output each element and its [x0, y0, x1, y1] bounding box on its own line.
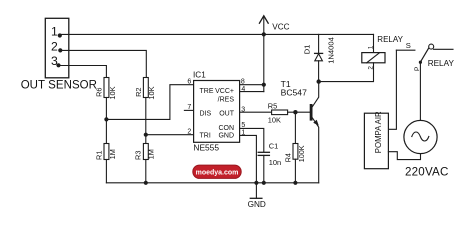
- wire pin8 to VCC column: [240, 84, 264, 86]
- svg-text:1: 1: [51, 24, 58, 38]
- svg-text:BC547: BC547: [281, 88, 307, 98]
- node GND column dot: [254, 181, 258, 185]
- svg-text:TRE: TRE: [200, 88, 214, 95]
- svg-text:3: 3: [241, 106, 245, 113]
- resistor R4 body: [293, 144, 298, 160]
- node R4 top junction: [293, 110, 297, 114]
- capacitor C1 plates: [258, 151, 269, 153]
- node pin1 dot: [58, 33, 62, 37]
- svg-text:OUT SENSOR: OUT SENSOR: [21, 80, 97, 92]
- svg-text:2: 2: [368, 66, 375, 70]
- svg-text:moedya.com: moedya.com: [196, 170, 239, 177]
- svg-text:GND: GND: [218, 133, 234, 140]
- wire R4 to ground: [294, 159, 296, 183]
- node R6/R1 junction: [104, 117, 108, 121]
- svg-text:RELAY: RELAY: [428, 59, 455, 68]
- wire R6 to junction to R1: [105, 98, 107, 144]
- node R3/ground dot: [144, 181, 148, 185]
- transistor collector: [312, 82, 319, 108]
- svg-text:RELAY: RELAY: [377, 35, 403, 44]
- wire O terminal right: [434, 48, 453, 50]
- node C1 ground dot: [262, 181, 266, 185]
- wire R2 down to R3: [145, 98, 147, 144]
- svg-text:R4: R4: [284, 153, 293, 162]
- switch lever: [420, 48, 428, 62]
- wire relay coil to D1: [319, 63, 374, 82]
- wire pin2 horizontal: [60, 50, 146, 77]
- resistor R3 body: [143, 144, 148, 160]
- resistor R2 body: [143, 78, 148, 98]
- svg-text:5: 5: [241, 122, 245, 129]
- wire C1 to ground: [263, 155, 265, 182]
- node VCC rail dot: [262, 32, 266, 36]
- switch S contact line: [396, 49, 415, 51]
- svg-text:POMPA AIR: POMPA AIR: [374, 111, 383, 153]
- connector OUT SENSOR box: [45, 18, 69, 78]
- wire AC bottom to pump box: [388, 152, 420, 160]
- wire R3 to ground line: [145, 160, 147, 183]
- svg-text:S: S: [406, 41, 411, 50]
- wire pin7 stub: [184, 109, 193, 111]
- wire pin4 to VCC column: [240, 91, 264, 93]
- wire pole down to AC source: [419, 62, 421, 120]
- svg-text:8: 8: [241, 79, 245, 86]
- diode D1: [318, 34, 320, 53]
- switch O terminal circle: [429, 44, 434, 49]
- svg-text:TRI: TRI: [200, 133, 211, 140]
- transistor T1 BC547 base bar: [310, 104, 313, 121]
- logo moedya.com: [193, 165, 241, 178]
- svg-text:10K: 10K: [268, 115, 281, 124]
- node pin3 dot: [56, 63, 60, 67]
- svg-text:P: P: [414, 66, 421, 71]
- svg-text:IC1: IC1: [193, 71, 206, 80]
- svg-text:7: 7: [187, 104, 191, 111]
- svg-text:/RES: /RES: [218, 96, 235, 103]
- svg-text:VCC+: VCC+: [215, 88, 234, 95]
- svg-text:220VAC: 220VAC: [405, 166, 449, 179]
- node R4 ground dot: [293, 181, 297, 185]
- svg-text:R5: R5: [268, 101, 277, 110]
- wire R5 to base: [288, 111, 311, 113]
- svg-text:GND: GND: [248, 200, 266, 209]
- svg-text:3: 3: [51, 54, 58, 68]
- svg-text:2: 2: [51, 39, 58, 53]
- resistor R6 body: [104, 78, 109, 98]
- sine wave: [412, 132, 429, 141]
- wire TRE pin6 path: [106, 85, 193, 120]
- svg-text:R1: R1: [95, 151, 104, 160]
- wire R4 column: [294, 112, 296, 143]
- svg-text:VCC: VCC: [272, 23, 289, 32]
- wire pin3 horizontal: [58, 66, 106, 78]
- IC IC1 NE555 timer box: [194, 81, 240, 143]
- svg-text:1N4004: 1N4004: [327, 37, 336, 64]
- svg-text:10K: 10K: [147, 86, 156, 99]
- relay coil RELAY box: [362, 53, 385, 63]
- wire ground bus: [106, 182, 318, 184]
- svg-text:1M: 1M: [146, 149, 155, 159]
- svg-text:10n: 10n: [269, 158, 281, 167]
- svg-text:6: 6: [187, 79, 191, 86]
- svg-text:C1: C1: [269, 142, 278, 151]
- svg-text:D1: D1: [302, 45, 311, 55]
- svg-text:NE555: NE555: [193, 143, 219, 153]
- node switch pole: [419, 61, 422, 64]
- node pin8 dot: [262, 83, 266, 87]
- svg-text:100K: 100K: [297, 145, 306, 162]
- emitter arrow: [313, 120, 319, 126]
- AC source circle: [404, 120, 437, 153]
- svg-text:10K: 10K: [108, 86, 117, 99]
- wire pin1 to VCC rail: [59, 33, 374, 35]
- wire VCC vertical: [263, 18, 265, 92]
- svg-text:1M: 1M: [108, 149, 117, 159]
- node D1 anode dot: [317, 79, 321, 83]
- wire R1 to ground line: [105, 160, 107, 183]
- wire pin5 CON to C1: [240, 128, 264, 152]
- transistor emitter: [312, 117, 319, 183]
- wire pin1 GND down: [240, 135, 257, 182]
- ground symbol: [255, 183, 257, 199]
- svg-text:1: 1: [368, 45, 375, 49]
- svg-text:R3: R3: [134, 151, 143, 160]
- VCC arrow chevron: [259, 16, 268, 23]
- motor POMPA AIR box: [364, 113, 388, 169]
- wire rail down to relay: [373, 34, 375, 52]
- svg-text:4: 4: [241, 86, 245, 93]
- svg-text:OUT: OUT: [219, 110, 235, 117]
- resistor R5 body: [272, 110, 288, 115]
- resistor R1 body: [104, 144, 109, 160]
- node R2/R3 junction: [144, 133, 148, 137]
- wire pin3 OUT to R5: [240, 111, 272, 113]
- svg-text:DIS: DIS: [200, 110, 212, 117]
- wire TRI pin2 path: [146, 134, 194, 136]
- svg-text:CON: CON: [218, 125, 234, 132]
- svg-text:R2: R2: [134, 87, 143, 96]
- svg-text:1: 1: [241, 130, 245, 137]
- node pin2 dot: [58, 48, 62, 52]
- wire S terminal down to pump box: [388, 50, 396, 129]
- svg-text:R6: R6: [95, 87, 104, 96]
- svg-text:2: 2: [187, 129, 191, 136]
